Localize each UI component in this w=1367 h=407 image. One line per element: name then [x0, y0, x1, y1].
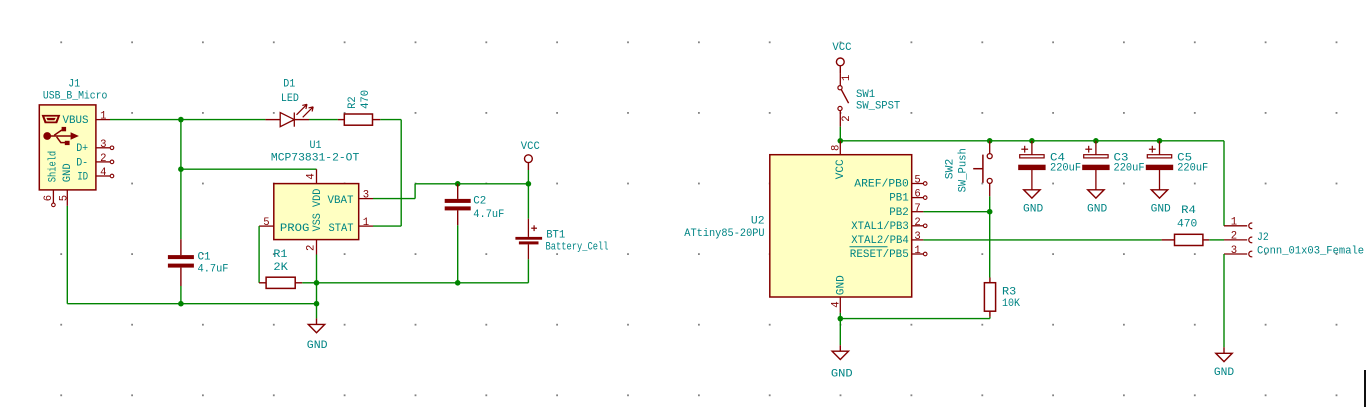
junction C2 top: [455, 181, 461, 187]
svg-text:7: 7: [914, 203, 920, 215]
svg-text:2K: 2K: [273, 262, 288, 274]
wire J2 pin3 to ground: [1223, 254, 1225, 347]
svg-text:220uF: 220uF: [1050, 162, 1081, 174]
wire R1 to VSS node: [302, 282, 316, 284]
svg-text:BT1: BT1: [546, 229, 565, 241]
IC U2 ATtiny85-20PU: [684, 141, 927, 313]
svg-text:R2: R2: [347, 96, 359, 109]
svg-text:3: 3: [100, 139, 106, 151]
svg-text:2: 2: [306, 245, 318, 251]
svg-text:4: 4: [306, 173, 318, 179]
svg-text:J1: J1: [68, 78, 80, 90]
svg-text:GND: GND: [62, 163, 74, 182]
wire SW2 bottom to PB2 junction: [989, 196, 991, 211]
junction U2 GND: [838, 316, 844, 322]
wire U2 GND pin down: [839, 313, 841, 319]
wire VBAT top rail to VCC: [415, 183, 528, 185]
ground symbol J2: [1214, 347, 1234, 379]
svg-text:5: 5: [59, 195, 71, 201]
svg-text:Conn_01x03_Female: Conn_01x03_Female: [1257, 245, 1364, 257]
wire R3 bottom to GND rail: [989, 317, 991, 319]
svg-text:AREF/PB0: AREF/PB0: [854, 179, 909, 191]
svg-text:2: 2: [1231, 231, 1237, 243]
svg-text:8: 8: [831, 145, 843, 151]
svg-text:GND: GND: [835, 275, 847, 295]
svg-text:R1: R1: [273, 249, 287, 261]
svg-text:U1: U1: [310, 140, 322, 152]
svg-text:4.7uF: 4.7uF: [473, 209, 504, 221]
wire BT1 top: [527, 184, 529, 219]
svg-text:1: 1: [100, 111, 106, 123]
svg-text:ID: ID: [77, 171, 88, 183]
svg-text:3: 3: [914, 231, 920, 243]
junction VSS/R1/GND rail A: [314, 280, 320, 286]
resistor R3 10K: [984, 278, 1020, 317]
wire PB2 node down to R3: [989, 212, 991, 278]
svg-text:220uF: 220uF: [1114, 162, 1145, 174]
wire PROG down: [258, 226, 260, 283]
svg-text:RESET/PB5: RESET/PB5: [850, 249, 909, 261]
svg-text:XTAL1/PB3: XTAL1/PB3: [851, 221, 909, 233]
junction VCC rail at U2: [838, 138, 844, 144]
IC U1 MCP73831-2-OT: [259, 140, 373, 255]
wire VBUS branch down to VDD/C1 node: [180, 120, 182, 170]
svg-text:C2: C2: [473, 196, 486, 208]
battery BT1 Battery_Cell: [515, 219, 608, 260]
svg-text:5: 5: [263, 217, 269, 229]
svg-text:10K: 10K: [1002, 298, 1020, 310]
svg-text:PB1: PB1: [889, 193, 909, 205]
svg-text:1: 1: [363, 217, 369, 229]
resistor R4 470: [1162, 205, 1210, 246]
junction VDD/C1 node: [178, 166, 184, 172]
capacitor C1 4.7uF: [168, 239, 229, 286]
svg-text:VCC: VCC: [521, 141, 540, 153]
junction C4 top: [1029, 138, 1035, 144]
wire USB GND down: [66, 206, 68, 304]
svg-text:GND: GND: [307, 340, 328, 352]
svg-text:GND: GND: [1151, 204, 1171, 216]
wire U1 VSS down: [316, 255, 318, 283]
svg-text:1: 1: [1231, 217, 1237, 229]
svg-text:MCP73831-2-OT: MCP73831-2-OT: [271, 152, 360, 164]
svg-text:VBUS: VBUS: [63, 115, 89, 127]
junction C1 bottom: [178, 301, 184, 307]
wire VBAT horizontal: [373, 198, 415, 200]
svg-text:SW_Push: SW_Push: [958, 148, 970, 192]
junction GND rail B: [314, 301, 320, 307]
wire GND stub below rail B: [316, 304, 318, 319]
wire VBUS J1 pin1 to LED: [110, 119, 265, 121]
svg-text:470: 470: [1177, 219, 1197, 231]
svg-text:J2: J2: [1257, 232, 1269, 244]
svg-text:Battery_Cell: Battery_Cell: [546, 241, 609, 253]
wire R4 to J2 pin2: [1209, 239, 1224, 241]
connector J1 USB_B_Micro: [39, 78, 114, 206]
svg-text:2: 2: [841, 115, 853, 121]
svg-text:VCC: VCC: [832, 42, 852, 54]
svg-text:XTAL2/PB4: XTAL2/PB4: [851, 235, 909, 247]
svg-text:VSS VDD: VSS VDD: [312, 189, 324, 232]
svg-text:GND: GND: [831, 369, 853, 381]
wire STAT vertical drop: [400, 120, 402, 227]
LED D1: [265, 79, 313, 127]
switch SW1 SW_SPST: [838, 73, 901, 126]
svg-text:D+: D+: [76, 143, 88, 155]
wire GND rail right: [840, 318, 990, 320]
svg-text:6: 6: [43, 195, 55, 201]
svg-text:SW2: SW2: [945, 159, 957, 180]
wire VBAT jog up: [414, 184, 416, 199]
junction C5 top: [1157, 138, 1163, 144]
wire C1 bottom: [180, 286, 182, 304]
svg-text:2: 2: [914, 217, 920, 229]
junction VCC/BT1 top: [526, 181, 532, 187]
svg-text:PROG: PROG: [280, 223, 310, 235]
wire U2 GND to ground: [839, 319, 841, 346]
svg-text:VCC: VCC: [835, 159, 847, 180]
wire BT1 bottom corner: [527, 259, 529, 283]
svg-text:R3: R3: [1002, 286, 1016, 298]
wire VCC to top rail: [527, 170, 529, 184]
svg-text:3: 3: [363, 190, 369, 202]
resistor R2 470: [338, 90, 380, 125]
wire R2 to STAT drop: [380, 119, 401, 121]
svg-text:4: 4: [831, 301, 843, 307]
power symbol VCC left: [521, 141, 540, 170]
svg-text:GND: GND: [1214, 367, 1234, 379]
capacitor C2 4.7uF: [445, 184, 505, 226]
junction C3 top: [1093, 138, 1099, 144]
svg-text:U2: U2: [751, 216, 765, 228]
svg-text:USB_B_Micro: USB_B_Micro: [43, 91, 108, 103]
svg-text:PB2: PB2: [889, 207, 909, 219]
ground symbol left: [307, 318, 328, 352]
svg-text:LED: LED: [281, 93, 299, 105]
junction SW2 top: [987, 138, 993, 144]
svg-text:STAT: STAT: [329, 223, 354, 235]
svg-text:C1: C1: [198, 251, 211, 263]
wire VSS node down to GND rail B: [316, 283, 318, 304]
wire GND rail B from USB: [67, 303, 316, 305]
svg-text:470: 470: [360, 90, 372, 109]
resistor R1 2K: [259, 249, 302, 288]
svg-text:SW1: SW1: [856, 89, 875, 101]
junction VBUS at C1 branch: [178, 117, 184, 123]
capacitor C4 220uF with ground: [1018, 141, 1081, 216]
svg-text:VBAT: VBAT: [328, 195, 355, 207]
svg-text:4: 4: [100, 167, 106, 179]
wire C2 bottom: [457, 225, 459, 282]
wire PB2 to SW2/R3: [923, 211, 989, 213]
border fragment bottom right: [1364, 370, 1366, 407]
capacitor C5 220uF with ground: [1146, 141, 1208, 216]
switch SW2 SW_Push: [945, 141, 993, 197]
svg-text:D-: D-: [76, 157, 88, 169]
svg-text:GND: GND: [1087, 204, 1107, 216]
svg-text:6: 6: [914, 189, 920, 201]
svg-text:220uF: 220uF: [1177, 162, 1208, 174]
svg-text:ATtiny85-20PU: ATtiny85-20PU: [684, 228, 764, 240]
wire SW1 to VCC rail junction: [839, 127, 841, 141]
svg-text:4.7uF: 4.7uF: [198, 264, 229, 276]
wire GND rail A to C2/BT1 bottom: [317, 282, 529, 284]
ground symbol U2: [831, 345, 853, 380]
wire STAT horizontal: [373, 225, 401, 227]
svg-text:Shield: Shield: [48, 151, 60, 183]
svg-text:1: 1: [841, 75, 853, 81]
junction PB2/SW2/R3: [987, 209, 993, 215]
svg-text:R4: R4: [1181, 205, 1196, 217]
wire VCC rail down to J2 pin1: [1223, 141, 1225, 226]
capacitor C3 220uF with ground: [1082, 141, 1144, 216]
wire C1 top: [180, 169, 182, 239]
connector J2 Conn_01x03_Female: [1224, 217, 1364, 258]
wire LED to R2: [309, 119, 338, 121]
svg-text:D1: D1: [283, 79, 295, 91]
svg-text:1: 1: [914, 245, 920, 257]
wire VCC top rail right: [840, 140, 1224, 142]
wire XTAL2/PB4 to R4: [923, 239, 1161, 241]
svg-text:SW_SPST: SW_SPST: [856, 101, 901, 113]
svg-text:2: 2: [100, 153, 106, 165]
svg-text:GND: GND: [1023, 204, 1043, 216]
svg-text:3: 3: [1231, 245, 1237, 257]
wire to U1 VDD: [181, 168, 317, 170]
svg-text:5: 5: [914, 175, 920, 187]
junction C2 bottom: [455, 280, 461, 286]
power symbol VCC right: [832, 42, 852, 74]
